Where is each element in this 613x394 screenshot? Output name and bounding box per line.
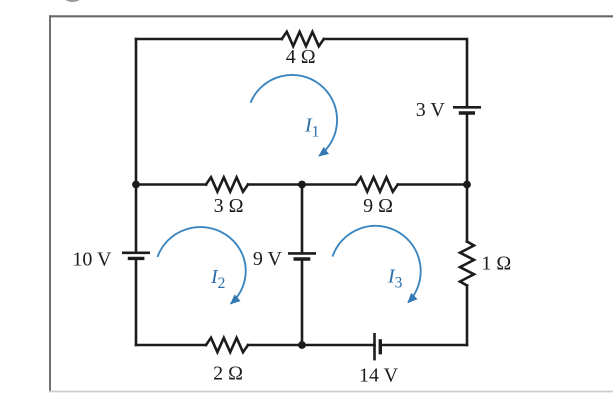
- svg-text:3 V: 3 V: [416, 99, 446, 121]
- wire middle branch: from centre node down to 9V battery: [301, 185, 304, 253]
- wire middle branch: from 9V battery down to bottom-middle node: [301, 261, 304, 345]
- wire bottom-right: from bottom-right corner to 14V battery: [381, 344, 468, 347]
- wire middle row: from 9-ohm to middle-right node: [398, 183, 467, 186]
- figure frame: partial circled-number bullet at top: [61, 0, 85, 1]
- battery 14V long plate: [373, 333, 376, 360]
- svg-text:14 V: 14 V: [359, 365, 399, 387]
- resistor R 4ohm zigzag: [282, 32, 324, 46]
- wire middle row: from middle-left node to 3-ohm resistor: [136, 183, 206, 186]
- mesh current arrow I1: [251, 75, 338, 156]
- svg-text:9 V: 9 V: [253, 248, 283, 270]
- node: middle-right junction: [463, 181, 471, 189]
- resistor R 2ohm zigzag: [206, 338, 248, 352]
- svg-text:I1: I1: [304, 115, 319, 141]
- wire left: from bottom-left corner up to 10V battery: [135, 260, 138, 345]
- battery 3V long plate: [453, 106, 481, 109]
- node: centre junction: [298, 181, 306, 189]
- wire right: from 3V battery down to middle-right node: [466, 115, 469, 185]
- battery 9V long plate: [288, 252, 316, 255]
- figure frame: left rule: [49, 15, 51, 391]
- svg-text:9 Ω: 9 Ω: [363, 195, 393, 217]
- svg-text:1 Ω: 1 Ω: [481, 253, 511, 275]
- svg-text:4 Ω: 4 Ω: [286, 46, 316, 68]
- mesh current arrow I2: [158, 227, 246, 304]
- figure frame: bottom rule: [49, 391, 613, 393]
- battery 3V short plate: [459, 111, 475, 114]
- svg-text:I2: I2: [210, 266, 225, 292]
- wire bottom-left: from 2-ohm resistor to bottom-left corner: [136, 344, 206, 347]
- battery 9V short plate: [294, 257, 311, 260]
- mesh current arrow I3: [333, 226, 421, 303]
- wire right: from middle-right node down to 1-ohm resistor: [466, 185, 469, 242]
- svg-text:I3: I3: [387, 265, 403, 291]
- battery 14V short plate: [379, 339, 382, 354]
- battery 10V short plate: [128, 257, 145, 260]
- wire bottom-middle: from 14V battery to bottom-middle node: [302, 344, 375, 347]
- wire middle row: from 3-ohm to centre node: [248, 183, 355, 186]
- wire left: from 10V battery up to middle-left node and top-left corner: [135, 39, 138, 252]
- wire right: from 1-ohm resistor to bottom-right corner: [466, 286, 469, 346]
- battery 10V long plate: [122, 252, 150, 255]
- svg-text:2 Ω: 2 Ω: [213, 362, 243, 384]
- svg-text:3 Ω: 3 Ω: [214, 195, 244, 217]
- figure frame: top rule: [50, 15, 613, 17]
- resistor R 3ohm zigzag: [206, 177, 248, 191]
- resistor R 9ohm zigzag: [356, 177, 398, 191]
- node: bottom-middle junction: [298, 341, 306, 349]
- wire top-right: from 4-ohm to top-right corner and down to 3V battery: [324, 39, 467, 106]
- node: middle-left junction: [132, 181, 140, 189]
- svg-text:10 V: 10 V: [72, 249, 112, 271]
- wire top-left: from top-left corner to 4-ohm resistor: [136, 38, 282, 41]
- wire bottom: from bottom-middle node to 2-ohm resistor: [248, 344, 302, 347]
- resistor R 1ohm vertical zigzag: [460, 242, 474, 286]
